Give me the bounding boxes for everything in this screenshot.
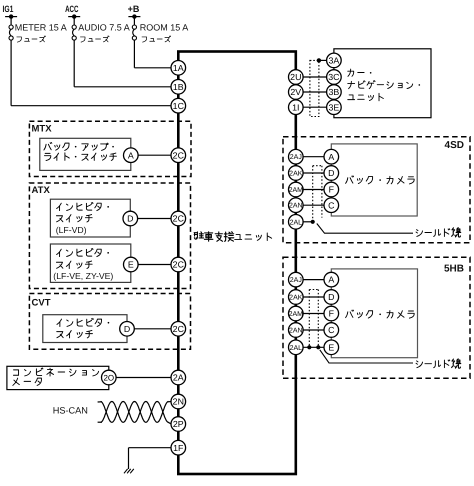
svg-text:CVT: CVT <box>32 298 51 309</box>
wire ACC to pin 1B <box>74 40 171 87</box>
pin C back camera 5HB <box>324 323 339 338</box>
wire pin 2AK to camera pin D (4SD) <box>303 172 324 174</box>
wire pin 2AL to camera pin E (5HB) <box>303 346 324 348</box>
svg-text:1A: 1A <box>173 63 184 73</box>
pin D back camera 5HB <box>324 290 339 305</box>
svg-text:D: D <box>328 292 334 302</box>
svg-text:1I: 1I <box>292 102 299 112</box>
wire pin 2AL to shield (4SD) <box>303 221 313 223</box>
pin D back camera 4SD <box>324 166 339 181</box>
shield back camera 5HB <box>309 290 318 347</box>
pin 2AL parking assist unit <box>289 340 304 355</box>
svg-text:2C: 2C <box>173 260 185 270</box>
wire pin 2AM to camera pin F (4SD) <box>303 189 324 191</box>
svg-text:2AM: 2AM <box>289 187 304 194</box>
svg-text:2V: 2V <box>290 87 301 97</box>
wire pin 2AN to camera pin C (5HB) <box>303 329 324 331</box>
svg-text:2AK: 2AK <box>289 170 303 177</box>
svg-text:2AK: 2AK <box>289 294 303 301</box>
pin 2AL parking assist unit <box>289 215 304 230</box>
wire pin 2AJ to camera pin A (4SD) <box>303 156 324 158</box>
terminal ACC with fuse <box>65 4 80 40</box>
svg-text:4SD: 4SD <box>445 140 464 151</box>
wire pin 2V to pin 3B <box>303 91 327 93</box>
svg-text:2U: 2U <box>290 72 301 82</box>
leader shield label 4SD <box>317 224 413 234</box>
svg-text:2C: 2C <box>173 324 185 334</box>
svg-text:3B: 3B <box>329 87 340 97</box>
pin 2AN parking assist unit <box>289 198 304 213</box>
svg-text:D: D <box>124 324 130 334</box>
block CVT outline <box>29 294 190 350</box>
svg-text:A: A <box>328 275 334 285</box>
pin F back camera 5HB <box>324 306 339 321</box>
pin 2C parking assist unit <box>171 148 186 163</box>
pin 2C parking assist unit <box>171 257 186 272</box>
block 5HB outline <box>283 257 470 378</box>
unit parking assist unit outline <box>178 52 295 475</box>
twisted pair HS-CAN to pins 2N 2P <box>98 402 172 425</box>
pin 1B parking assist unit <box>171 80 186 95</box>
svg-text:F: F <box>329 185 335 195</box>
label parking assist unit <box>194 232 271 242</box>
pin 3B car navigation unit <box>327 85 342 100</box>
svg-text:2AL: 2AL <box>290 345 303 352</box>
fuse AUDIO 7.5 A label <box>78 23 130 42</box>
svg-text:D: D <box>127 214 133 224</box>
pin 3C car navigation unit <box>327 70 342 85</box>
pin 2AM parking assist unit <box>289 306 304 321</box>
svg-text:ROOM 15 A: ROOM 15 A <box>140 23 189 33</box>
svg-text:HS-CAN: HS-CAN <box>53 406 88 416</box>
pin E back camera 5HB <box>324 340 339 355</box>
switch box inhibitor switch LF-VE ZY-VE <box>50 244 130 282</box>
wire pin 2U to pin 3C <box>303 76 327 78</box>
svg-text:1C: 1C <box>173 101 185 111</box>
box car navigation unit <box>334 49 431 118</box>
svg-text:2AN: 2AN <box>289 327 303 334</box>
svg-text:2AM: 2AM <box>289 311 304 318</box>
pin 2V parking assist unit <box>289 85 304 100</box>
svg-text:(LF-VE, ZY-VE): (LF-VE, ZY-VE) <box>53 271 113 281</box>
svg-text:E: E <box>328 342 334 352</box>
pin 1C parking assist unit <box>171 98 186 113</box>
junction shield 4SD <box>311 220 315 224</box>
pin A back-up light switch <box>124 148 139 163</box>
box back camera 5HB <box>331 269 417 358</box>
pin 2AN parking assist unit <box>289 323 304 338</box>
box combination meter <box>7 366 109 389</box>
svg-text:F: F <box>329 309 335 319</box>
pin D inhibitor switch LF-VD <box>123 211 138 226</box>
wire pin 2AM to camera pin F (5HB) <box>303 313 324 315</box>
svg-text:2AJ: 2AJ <box>290 154 302 161</box>
wire +B to pin 1A <box>134 40 171 68</box>
leader shield label 5HB <box>320 350 413 363</box>
switch box back-up light switch <box>40 138 131 170</box>
svg-text:A: A <box>328 152 334 162</box>
svg-text:2AL: 2AL <box>290 219 303 226</box>
svg-text:2AJ: 2AJ <box>290 277 302 284</box>
switch box inhibitor switch LF-VD <box>50 199 130 237</box>
wire pin E to pin 2C <box>138 264 171 266</box>
svg-text:D: D <box>328 168 334 178</box>
junction shield left 5HB <box>307 345 311 349</box>
wire shield to pin 3A <box>319 59 327 61</box>
svg-text:2P: 2P <box>173 419 184 429</box>
wire IG1 to pin 1C <box>11 40 171 106</box>
block MTX outline <box>29 121 191 176</box>
svg-text:AUDIO 7.5 A: AUDIO 7.5 A <box>78 23 130 33</box>
pin 1F parking assist unit <box>171 440 186 455</box>
junction shield right 5HB <box>316 345 320 349</box>
pin 3A car navigation unit <box>327 53 342 68</box>
block 4SD outline <box>283 137 470 243</box>
wire pin 2AK to camera pin D (5HB) <box>303 296 324 298</box>
svg-text:2C: 2C <box>173 214 185 224</box>
svg-text:A: A <box>128 150 134 160</box>
pin 3E car navigation unit <box>327 100 342 115</box>
svg-text:2C: 2C <box>173 150 185 160</box>
box back camera 4SD <box>331 144 417 216</box>
svg-text:2A: 2A <box>173 373 184 383</box>
svg-text:+B: +B <box>128 4 140 14</box>
svg-text:2O: 2O <box>103 373 114 382</box>
wire pin D to pin 2C <box>138 218 171 220</box>
svg-text:1B: 1B <box>173 82 184 92</box>
pin E inhibitor switch LF-VE ZY-VE <box>124 257 139 272</box>
wire pin 2AN to camera pin C (4SD) <box>303 204 324 206</box>
wire pin D to pin 2C <box>134 328 171 330</box>
pin F back camera 4SD <box>324 182 339 197</box>
fuse ROOM 15 A label <box>140 23 189 42</box>
svg-text:2AN: 2AN <box>289 203 303 210</box>
pin 2AJ parking assist unit <box>289 272 304 287</box>
pin 2P parking assist unit <box>171 417 186 432</box>
label shield wire 5HB <box>416 359 461 368</box>
pin 2A parking assist unit <box>171 370 186 385</box>
svg-text:2N: 2N <box>173 397 184 407</box>
terminal IG1 with fuse <box>3 4 18 40</box>
wire pin A to pin 2C <box>138 154 171 156</box>
svg-text:3A: 3A <box>329 56 340 66</box>
svg-text:C: C <box>328 200 335 210</box>
svg-text:METER 15 A: METER 15 A <box>15 23 67 33</box>
wire pin 1I to pin 3E <box>303 106 327 108</box>
pin C back camera 4SD <box>324 198 339 213</box>
pin 1A parking assist unit <box>171 61 186 76</box>
wire pin 1F to ground <box>129 448 172 469</box>
terminal +B with fuse <box>128 4 141 40</box>
svg-text:5HB: 5HB <box>444 264 464 275</box>
shield back camera 4SD <box>313 166 322 221</box>
pin 2AJ parking assist unit <box>289 149 304 164</box>
label shield wire 4SD <box>416 228 461 237</box>
wire pin 2O to pin 2A <box>116 377 171 379</box>
pin 1I parking assist unit <box>289 100 304 115</box>
pin 2AK parking assist unit <box>289 166 304 181</box>
svg-text:C: C <box>328 325 335 335</box>
block ATX outline <box>29 183 190 289</box>
pin 2U parking assist unit <box>289 70 304 85</box>
svg-text:IG1: IG1 <box>3 4 14 14</box>
pin A back camera 5HB <box>324 272 339 287</box>
ground <box>124 469 134 473</box>
pin 2C parking assist unit <box>171 211 186 226</box>
pin D inhibitor switch CVT <box>120 322 135 337</box>
pin A back camera 4SD <box>324 149 339 164</box>
pin 2AK parking assist unit <box>289 290 304 305</box>
pin 2O combination meter <box>102 370 117 385</box>
pin 2C parking assist unit <box>171 322 186 337</box>
svg-text:MTX: MTX <box>32 124 53 135</box>
pin 2AM parking assist unit <box>289 182 304 197</box>
svg-text:(LF-VD): (LF-VD) <box>56 225 87 235</box>
junction shield nav <box>317 58 321 62</box>
svg-text:ATX: ATX <box>32 185 51 196</box>
pin 2N parking assist unit <box>171 394 186 409</box>
switch box inhibitor switch CVT <box>43 315 127 343</box>
svg-text:3E: 3E <box>329 102 340 112</box>
wire pin 2AJ to camera pin A (5HB) <box>303 279 324 281</box>
shield nav harness <box>310 60 319 116</box>
svg-text:3C: 3C <box>328 72 340 82</box>
svg-text:1F: 1F <box>173 443 184 453</box>
svg-text:E: E <box>128 260 134 270</box>
svg-text:ACC: ACC <box>65 4 79 14</box>
fuse METER 15 A label <box>15 23 67 42</box>
